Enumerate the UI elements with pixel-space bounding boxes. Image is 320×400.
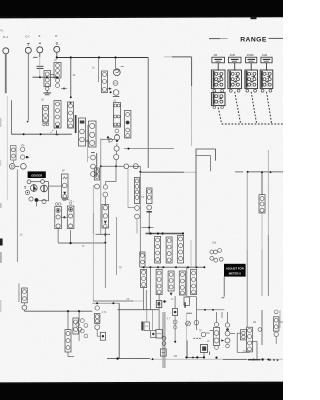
wire cross top xyxy=(101,139,115,143)
label TP2 xyxy=(199,331,202,333)
node AQ4 xyxy=(277,359,279,361)
resistor R25 chain xyxy=(156,269,162,294)
contact Y xyxy=(194,320,199,325)
node W4 xyxy=(182,232,184,234)
wire Q2 stub xyxy=(36,202,38,207)
arrow AK xyxy=(221,339,224,341)
squiggle mark xyxy=(21,144,25,147)
capacitor C2 xyxy=(37,66,44,68)
value 4.7 xyxy=(167,318,171,321)
wire x146 xyxy=(145,290,147,310)
bias wire row xyxy=(32,76,58,78)
terminal glyph S xyxy=(39,42,41,44)
range switch S1A actuator link xyxy=(218,108,221,124)
node X6 xyxy=(187,266,189,268)
terminal glyph P xyxy=(56,43,58,45)
label s xyxy=(88,156,90,159)
resistor R30 chain xyxy=(65,330,71,352)
wire y172 dash xyxy=(235,171,243,173)
value 1k xyxy=(92,65,95,69)
value 25k xyxy=(212,241,217,245)
range switch S1C actuator link xyxy=(251,92,256,124)
wire bus x148 down xyxy=(147,58,149,169)
value 4.7k xyxy=(102,311,107,314)
terminal label P xyxy=(55,34,57,38)
terminal label C-I xyxy=(25,35,29,39)
dark edge mark xyxy=(75,115,77,133)
stub y149 xyxy=(196,149,216,161)
node X2 xyxy=(149,266,151,268)
node AD xyxy=(112,302,114,304)
node AC xyxy=(96,302,98,304)
node A xyxy=(56,56,58,58)
transistor Q1 xyxy=(113,66,123,75)
left edge smudge 4 xyxy=(0,300,1,312)
wire L128 xyxy=(128,169,134,208)
big L vertical xyxy=(118,303,120,358)
contact AC2 xyxy=(95,325,100,330)
range switch S1C stem xyxy=(250,63,252,70)
contact AB1 xyxy=(76,323,80,327)
contact 2P xyxy=(62,183,67,188)
contact Q2f xyxy=(42,199,46,203)
range switch S1A lower contacts xyxy=(213,89,224,92)
node J xyxy=(110,91,112,93)
trimmer scribble xyxy=(63,177,67,179)
wire y352 xyxy=(237,351,249,352)
label T3 xyxy=(141,196,145,199)
resistor R27 chain xyxy=(179,271,185,295)
contact Q5 xyxy=(201,332,209,337)
contact AM xyxy=(274,332,278,336)
contact under xyxy=(103,182,107,190)
tick at node G2 xyxy=(56,130,58,134)
header rule right xyxy=(269,37,284,39)
top bus wire xyxy=(57,57,148,59)
diode D1 xyxy=(113,90,120,97)
tick AG xyxy=(174,355,177,357)
wire B1 top xyxy=(18,283,20,302)
resistor R39 chain xyxy=(140,252,145,267)
node AJ1 xyxy=(185,356,187,358)
header rule left xyxy=(209,38,228,40)
wire y172 main xyxy=(140,166,196,172)
wire R24 down xyxy=(143,288,145,310)
long wire x105 xyxy=(104,243,106,288)
resistor R22 chain xyxy=(166,237,172,263)
meter M1 box xyxy=(100,332,105,340)
contact P2 xyxy=(41,180,45,184)
probe lead F-J xyxy=(5,54,7,93)
wire B1 stub xyxy=(23,303,25,311)
wire x216 col xyxy=(217,312,228,323)
relay K1 box xyxy=(11,146,16,160)
jack J3 S xyxy=(37,47,43,53)
tick adjust xyxy=(222,297,225,299)
node D xyxy=(114,56,116,58)
contact T2 xyxy=(133,164,138,169)
range switch S1C coil box xyxy=(246,57,257,63)
wire R25 down xyxy=(158,295,160,330)
value 24 xyxy=(126,297,129,301)
polarity arrow xyxy=(63,192,66,195)
resistor R6 chain xyxy=(102,71,108,93)
wire k2 link xyxy=(187,296,197,298)
range switch S1D stem xyxy=(266,63,268,70)
node AO xyxy=(267,359,269,361)
wire x237 xyxy=(237,333,240,352)
long wire x93 xyxy=(92,185,94,301)
contact S1 xyxy=(20,147,24,151)
range switch S1A stem xyxy=(217,63,219,70)
range position label 100R xyxy=(247,53,255,57)
resistor R36 box xyxy=(240,330,246,340)
pulse box xyxy=(156,301,162,308)
node B3 xyxy=(61,88,67,90)
jack J2 C-I xyxy=(25,47,31,53)
capacitor C3 xyxy=(113,81,118,86)
node X5 xyxy=(175,266,177,268)
node I xyxy=(40,133,42,135)
range switch S1D lower contacts xyxy=(261,89,272,92)
wire x191 stub xyxy=(190,240,192,267)
wire C4 stub xyxy=(146,310,148,322)
contact S4 xyxy=(21,164,27,170)
range switch S1A second wafer xyxy=(211,93,225,106)
frame vertical x186 xyxy=(186,313,189,357)
left edge smudge 5 xyxy=(0,160,1,166)
resistor R1 chain xyxy=(44,71,50,88)
resistor R38 box xyxy=(273,317,279,331)
wire AB down xyxy=(78,311,80,321)
range switch S1C wafer xyxy=(245,70,258,89)
frame top tick xyxy=(187,312,193,314)
node R17 bottom xyxy=(96,233,111,235)
bus emitter row xyxy=(58,242,105,244)
long wire x87 xyxy=(87,125,89,162)
dashes below 2P xyxy=(63,200,74,202)
resistor R34 box xyxy=(214,328,220,350)
wire x116 drop xyxy=(106,166,117,181)
value 15 xyxy=(19,233,23,237)
node F xyxy=(46,76,48,78)
node Z2 xyxy=(270,171,272,173)
value 3k xyxy=(73,73,76,77)
wire y227 xyxy=(142,227,154,229)
wire P2 right xyxy=(44,182,48,202)
node AQ3 xyxy=(273,359,275,361)
node AE xyxy=(116,357,118,359)
range switch S1A wafer xyxy=(211,70,225,89)
contact R17 top xyxy=(103,192,108,204)
wire R17 down xyxy=(104,228,106,243)
wire AC down xyxy=(97,330,100,337)
range switch S1B coil box xyxy=(228,57,241,63)
diode D2 mark xyxy=(170,293,173,296)
resistor R29 chain xyxy=(259,195,265,213)
wire y303 xyxy=(92,302,119,304)
node AJ2 xyxy=(196,356,198,358)
node R xyxy=(104,242,106,244)
node W2 xyxy=(157,232,159,234)
meter M2 box xyxy=(201,345,208,358)
range switch S1D wafer xyxy=(260,70,273,89)
double wire x163 xyxy=(163,312,165,368)
wire x280 stub xyxy=(279,310,281,328)
terminal glyph C-I xyxy=(27,43,29,45)
resistor R14 chain xyxy=(67,202,74,229)
trimmer 2P box xyxy=(62,174,69,198)
wire cross vert xyxy=(100,139,102,235)
resistor R21 chain xyxy=(155,236,161,263)
resistor R37 chain xyxy=(247,327,253,352)
node X7 xyxy=(195,266,197,268)
wire T3 down xyxy=(148,212,150,234)
node blob xyxy=(163,300,166,302)
value 30 xyxy=(41,98,44,102)
phone jack tip xyxy=(9,164,15,170)
left mid bus xyxy=(11,133,71,135)
node C xyxy=(98,56,100,58)
contact AI xyxy=(214,322,218,326)
node H xyxy=(23,133,25,135)
wire node C down xyxy=(98,58,100,83)
node G xyxy=(56,76,58,78)
resistor R26 chain xyxy=(168,271,174,291)
range switch S1B lower contacts xyxy=(229,89,240,92)
capacitor C5 box xyxy=(156,330,162,338)
left edge smudge 2 xyxy=(0,203,2,208)
wire AA down xyxy=(67,311,69,329)
wire R30 down xyxy=(68,352,74,357)
contact AH xyxy=(186,321,191,326)
contact AC1 xyxy=(95,306,99,310)
resistor R33 box xyxy=(173,309,178,330)
value 2k xyxy=(207,340,210,343)
range switch S1D coil box xyxy=(261,57,272,63)
resistor R16 chain xyxy=(134,178,139,234)
capacitor C4 box xyxy=(144,322,150,331)
label box ADJUST xyxy=(224,264,246,277)
node M xyxy=(128,148,130,150)
wire P1-P2 xyxy=(31,181,41,183)
range switch S1B stem xyxy=(234,63,236,70)
resistor R23 chain xyxy=(178,235,184,263)
smudge above xyxy=(62,198,68,200)
resistor R20 chain xyxy=(146,188,152,204)
resistor R28 chain xyxy=(191,269,197,294)
node AP xyxy=(152,358,154,360)
resistor R5 chain xyxy=(68,102,74,128)
node AQ2 xyxy=(269,359,271,361)
frame bottom xyxy=(187,356,205,358)
top bus wire right segment xyxy=(164,56,192,58)
range switch S1B actuator link xyxy=(235,92,241,124)
node X3 xyxy=(157,266,159,268)
resistor R2 chain xyxy=(43,106,49,126)
range position label 1kR xyxy=(262,53,268,57)
resistor R35 stack xyxy=(225,323,235,348)
resistor R10 chain xyxy=(113,103,120,139)
contact circles N xyxy=(91,153,97,178)
long wire x247 xyxy=(246,172,248,327)
node S3 xyxy=(26,156,30,158)
transistor Q2b xyxy=(40,185,47,192)
diag dashes below R4 xyxy=(51,129,55,133)
contact AL xyxy=(274,310,278,314)
resistor R13 chain xyxy=(55,203,62,229)
label TP xyxy=(119,267,123,270)
node X4 xyxy=(162,266,164,268)
stub y155 xyxy=(196,156,211,172)
node AB xyxy=(78,310,80,312)
contact Q2c xyxy=(25,190,29,194)
value 30b xyxy=(113,99,116,102)
range switch S1D actuator link xyxy=(267,92,272,124)
wire adjust down xyxy=(223,277,225,297)
wire node B down xyxy=(70,58,72,98)
node AQ1 xyxy=(253,359,255,361)
bottom bus dark seg2 xyxy=(248,359,261,361)
node X8 xyxy=(203,266,205,268)
wire right corner down xyxy=(191,57,193,146)
thermistor R12 stack xyxy=(114,135,120,166)
node B xyxy=(70,56,72,58)
contact T3 xyxy=(147,205,152,210)
mark eq xyxy=(24,186,26,188)
bus x196 upper xyxy=(195,149,197,267)
contact Q2d xyxy=(29,197,33,201)
contact P1 xyxy=(27,180,31,184)
wire x175 xyxy=(174,296,176,342)
ground symbol xyxy=(44,87,51,95)
faint sheet line xyxy=(6,96,8,200)
wire S stub xyxy=(39,53,41,58)
range switch S1A coil box xyxy=(212,57,225,63)
node R9 xyxy=(85,140,89,142)
resistor R24 chain xyxy=(141,269,147,287)
contact AB2 xyxy=(78,327,82,331)
mark bottom left xyxy=(209,352,211,356)
bottom bus dark seg1 xyxy=(223,359,247,361)
wire R13-R14 link xyxy=(61,216,68,218)
wire T right xyxy=(261,172,263,195)
wire K1 down xyxy=(12,160,14,164)
contact B1 xyxy=(22,305,27,310)
left edge registration mark xyxy=(0,239,3,246)
wire AB stub xyxy=(78,331,80,341)
wire AM down xyxy=(275,337,277,345)
node R6 xyxy=(108,88,112,90)
node AJ0 xyxy=(192,357,194,359)
junction tick R4 bottom xyxy=(56,134,59,136)
wire to trimmer xyxy=(49,185,62,187)
contact AF2 xyxy=(162,342,166,346)
top bar sprocket tab xyxy=(251,17,257,19)
range switch S1B wafer xyxy=(228,70,242,89)
contact S2 xyxy=(20,155,24,159)
node U xyxy=(139,171,141,173)
wire R14 down xyxy=(70,230,72,243)
node B2 xyxy=(70,96,72,98)
capacitor C1 plate mark xyxy=(33,56,38,58)
big L horizontal xyxy=(107,358,150,360)
wire jack link xyxy=(15,165,19,167)
wire y172 right xyxy=(247,171,283,173)
wire y166 xyxy=(101,165,141,167)
wire mid right xyxy=(124,148,174,150)
left edge smudge xyxy=(0,252,2,263)
terminal label PL xyxy=(0,29,4,33)
node AA xyxy=(67,310,69,312)
thick bus y233 xyxy=(146,233,184,235)
node AJ3 xyxy=(203,356,205,358)
contact AF1 xyxy=(162,336,166,340)
node Q xyxy=(63,216,65,218)
bottom bus faint xyxy=(150,358,283,360)
wire C-I down xyxy=(27,53,29,120)
contact inline xyxy=(124,164,129,169)
resistor R32 chain xyxy=(95,313,100,323)
wire S faint down xyxy=(39,58,41,77)
wire x196 lower xyxy=(195,297,197,330)
transistor Q4 contacts xyxy=(80,319,87,338)
wire y301 xyxy=(93,300,144,302)
relay K2 box xyxy=(184,297,189,308)
resistor R4 chain xyxy=(54,101,61,129)
resistor R9 chain xyxy=(89,121,97,147)
bottom film border bar xyxy=(0,382,283,400)
tick T3 xyxy=(147,211,152,213)
value 1M xyxy=(253,321,256,324)
terminal label S xyxy=(38,34,40,38)
node Z xyxy=(261,171,263,173)
wire R37 tick xyxy=(252,341,258,343)
resistor R3 chain xyxy=(54,59,61,88)
wire x116 long xyxy=(116,217,118,275)
wire left bus stub up xyxy=(10,100,12,134)
node Y2 xyxy=(204,309,214,311)
range switch ganged shaft line xyxy=(222,123,283,125)
node X1 xyxy=(143,266,145,268)
wire X6 down xyxy=(186,267,188,296)
range position label 1R xyxy=(214,53,219,57)
wire y309 xyxy=(196,309,224,311)
node R2b xyxy=(70,242,72,244)
bus y267 xyxy=(141,266,205,268)
capacitor C4 bar xyxy=(141,322,143,331)
node E xyxy=(39,76,41,78)
long wire x262 xyxy=(261,213,263,345)
jack J1 F-J xyxy=(3,48,9,54)
wire y309 left xyxy=(118,309,159,311)
label box GEIGER xyxy=(28,171,46,178)
top film border bar xyxy=(0,0,283,18)
RANGE heading xyxy=(240,37,267,44)
jack J4 P xyxy=(54,46,60,52)
wire C6 stub xyxy=(152,310,154,331)
transistor Q2a xyxy=(30,185,37,192)
node cross xyxy=(100,165,102,167)
contact AL2 xyxy=(258,328,262,332)
node C-I end xyxy=(27,121,29,123)
node y166 xyxy=(115,165,117,167)
wire x257 drop xyxy=(256,342,258,360)
long wire x268 xyxy=(267,150,269,296)
terminal label F-J xyxy=(3,35,8,39)
value 7k xyxy=(82,244,85,248)
contact circle L xyxy=(107,136,112,142)
